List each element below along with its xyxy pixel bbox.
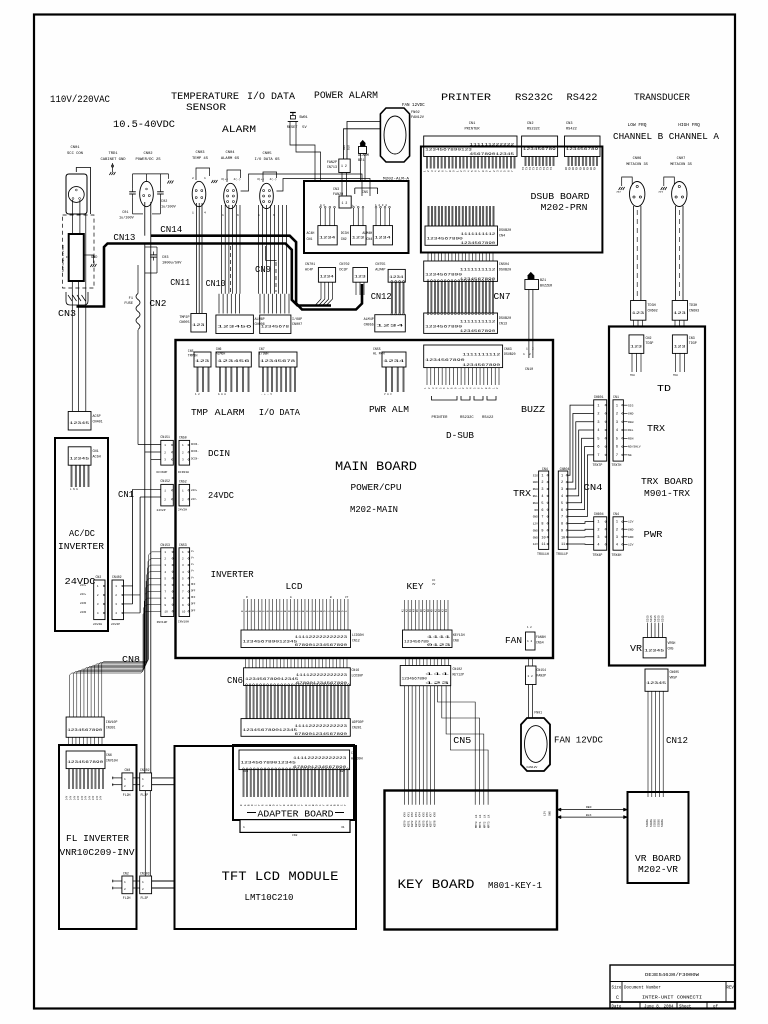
svg-text:TRX4H: TRX4H xyxy=(612,553,622,557)
svg-text:TRX7P: TRX7P xyxy=(593,463,603,467)
svg-text:C01: C01 xyxy=(122,211,128,215)
svg-text:2: 2 xyxy=(124,785,126,788)
svg-text:CN02: CN02 xyxy=(143,152,153,156)
svg-text:0123: 0123 xyxy=(427,644,451,648)
svg-text:1: 1 xyxy=(561,474,563,478)
svg-text:CN701: CN701 xyxy=(305,263,315,267)
svg-text:CN301: CN301 xyxy=(106,726,116,730)
svg-text:CN151: CN151 xyxy=(160,435,170,439)
svg-text:6: 6 xyxy=(561,509,563,513)
svg-text:D-SUB: D-SUB xyxy=(446,431,475,441)
svg-text:1234: 1234 xyxy=(320,275,335,279)
svg-text:C02: C02 xyxy=(161,200,167,204)
svg-text:CN13: CN13 xyxy=(499,323,507,327)
svg-text:ALARM: ALARM xyxy=(222,125,256,136)
svg-text:CN10: CN10 xyxy=(206,279,226,289)
svg-text:5: 5 xyxy=(541,502,543,506)
svg-text:OFF: OFF xyxy=(191,609,196,612)
svg-text:2: 2 xyxy=(616,528,618,532)
svg-text:24V: 24V xyxy=(96,795,99,800)
svg-text:FG: FG xyxy=(66,256,70,259)
svg-text:SENSOR: SENSOR xyxy=(186,103,226,114)
svg-text:ADAPTER BOARD: ADAPTER BOARD xyxy=(258,810,334,820)
svg-text:BUZZER: BUZZER xyxy=(540,285,552,289)
svg-text:AC4H: AC4H xyxy=(307,231,315,235)
svg-text:GND: GND xyxy=(628,536,634,539)
svg-text:CN5: CN5 xyxy=(188,349,194,353)
svg-text:31: 31 xyxy=(341,826,345,829)
svg-text:KEY2: KEY2 xyxy=(411,820,414,827)
svg-text:CN4: CN4 xyxy=(499,235,505,239)
svg-text:2: 2 xyxy=(616,413,618,417)
svg-text:VR5H: VR5H xyxy=(668,641,676,645)
svg-text:1000u/50V: 1000u/50V xyxy=(162,261,182,266)
svg-text:CN602: CN602 xyxy=(648,310,658,314)
svg-text:LCD30P: LCD30P xyxy=(352,674,364,678)
svg-text:LCD30H: LCD30H xyxy=(352,633,364,637)
svg-text:CN12: CN12 xyxy=(371,291,392,302)
svg-text:CN604: CN604 xyxy=(594,512,604,516)
svg-text:BZ1: BZ1 xyxy=(540,279,546,283)
svg-text:TRX BOARD: TRX BOARD xyxy=(641,476,693,487)
svg-text:FAN 12VDC: FAN 12VDC xyxy=(554,735,603,746)
svg-text:12V: 12V xyxy=(628,543,634,546)
svg-text:2: 2 xyxy=(597,528,599,532)
svg-text:9: 9 xyxy=(561,529,563,533)
svg-text:TRX: TRX xyxy=(513,489,532,499)
svg-text:I/O DATA: I/O DATA xyxy=(247,91,295,103)
svg-text:CN303: CN303 xyxy=(140,872,150,876)
svg-text:CN1: CN1 xyxy=(93,450,99,454)
svg-text:LMT10C210: LMT10C210 xyxy=(245,893,294,903)
svg-text:SIG5: SIG5 xyxy=(658,615,661,622)
svg-text:INV10P: INV10P xyxy=(157,621,168,624)
svg-text:CN06: CN06 xyxy=(633,157,642,161)
svg-text:DCIN-: DCIN- xyxy=(191,443,199,446)
svg-text:RGL: RGL xyxy=(533,495,538,498)
svg-text:123: 123 xyxy=(192,324,206,328)
svg-text:DCIN-: DCIN- xyxy=(191,450,199,453)
svg-text:1: 1 xyxy=(597,404,599,408)
svg-text:1 2: 1 2 xyxy=(195,393,200,396)
svg-text:RX: RX xyxy=(590,166,593,170)
svg-text:ALARM: ALARM xyxy=(215,408,245,418)
svg-text:CN1: CN1 xyxy=(351,751,357,755)
svg-text:RX: RX xyxy=(586,166,589,170)
svg-text:CN005: CN005 xyxy=(179,321,189,325)
svg-text:CN601: CN601 xyxy=(594,395,604,399)
svg-text:6: 6 xyxy=(237,214,239,217)
svg-text:CN1: CN1 xyxy=(243,770,248,773)
svg-text:RED: RED xyxy=(343,145,346,150)
svg-text:CN6: CN6 xyxy=(227,676,243,686)
svg-text:POWER/CPU: POWER/CPU xyxy=(351,482,402,493)
svg-text:TMP2P: TMP2P xyxy=(179,316,189,320)
svg-text:111122222222223: 111122222222223 xyxy=(295,725,347,729)
svg-text:SIG5G: SIG5G xyxy=(654,819,657,827)
svg-text:CN4: CN4 xyxy=(613,512,619,516)
svg-text:KEY1: KEY1 xyxy=(407,820,410,827)
svg-text:FAN2P: FAN2P xyxy=(327,161,337,165)
svg-text:CN055: CN055 xyxy=(364,324,374,328)
svg-text:CN3: CN3 xyxy=(333,188,339,192)
svg-text:24V4H: 24V4H xyxy=(93,623,102,626)
svg-text:KEY: KEY xyxy=(407,582,425,592)
svg-text:2: 2 xyxy=(115,594,117,597)
svg-text:1111111112: 1111111112 xyxy=(460,269,495,273)
svg-text:7: 7 xyxy=(541,516,543,520)
svg-text:777: 777 xyxy=(616,191,621,194)
svg-text:CN5: CN5 xyxy=(453,736,471,746)
svg-text:4: 4 xyxy=(561,495,563,499)
svg-text:1: 1 xyxy=(597,521,599,525)
svg-text:24VD: 24VD xyxy=(80,602,87,605)
svg-text:24V2P: 24V2P xyxy=(157,509,166,512)
svg-text:24V: 24V xyxy=(85,795,88,800)
svg-text:M202-PRN: M202-PRN xyxy=(541,202,588,213)
svg-text:DSUB20: DSUB20 xyxy=(504,352,516,356)
svg-text:SIG5G: SIG5G xyxy=(657,819,660,827)
svg-text:SCC CON: SCC CON xyxy=(67,152,83,156)
svg-text:LK: LK xyxy=(483,814,486,818)
svg-text:24V: 24V xyxy=(66,795,69,800)
svg-text:1234: 1234 xyxy=(374,237,391,241)
svg-text:LK: LK xyxy=(475,814,478,818)
svg-text:1234567890: 1234567890 xyxy=(425,273,462,277)
svg-text:24V: 24V xyxy=(73,795,76,800)
svg-text:INV10H: INV10H xyxy=(106,759,118,763)
svg-text:FUSE: FUSE xyxy=(124,302,133,306)
svg-text:CN2: CN2 xyxy=(96,575,102,579)
svg-text:1234: 1234 xyxy=(389,276,404,280)
svg-text:4: 4 xyxy=(541,495,543,499)
svg-text:111: 111 xyxy=(425,673,449,677)
svg-text:11: 11 xyxy=(541,543,545,547)
svg-text:CN2: CN2 xyxy=(646,336,652,340)
svg-text:CN4: CN4 xyxy=(366,237,372,241)
svg-text:8: 8 xyxy=(541,523,543,527)
svg-text:KY4: KY4 xyxy=(419,812,422,817)
svg-text:CN5: CN5 xyxy=(668,647,674,651)
svg-text:1234567890: 1234567890 xyxy=(425,359,464,363)
svg-text:4: 4 xyxy=(616,429,618,433)
svg-text:KY3: KY3 xyxy=(415,812,418,817)
svg-text:MPT3: MPT3 xyxy=(488,821,491,828)
svg-text:123: 123 xyxy=(195,360,210,364)
svg-text:1234567890: 1234567890 xyxy=(67,761,103,765)
svg-text:111111222222: 111111222222 xyxy=(469,144,514,148)
svg-text:1111111112: 1111111112 xyxy=(461,233,496,237)
svg-text:FL2P: FL2P xyxy=(141,793,149,797)
svg-text:DE3E54630/F3000W: DE3E54630/F3000W xyxy=(645,972,699,978)
svg-text:TRANSDUCER: TRANSDUCER xyxy=(634,93,690,104)
svg-text:CN154: CN154 xyxy=(537,668,547,672)
svg-text:CN201: CN201 xyxy=(352,726,362,730)
svg-text:1 2: 1 2 xyxy=(342,201,348,205)
svg-text:5: 5 xyxy=(561,502,563,506)
svg-text:ALM4P: ALM4P xyxy=(364,318,374,322)
svg-text:M801-KEY-1: M801-KEY-1 xyxy=(488,880,542,891)
svg-text:CN04: CN04 xyxy=(225,151,235,155)
svg-text:A A A: A A A xyxy=(218,393,226,396)
svg-text:6: 6 xyxy=(597,446,599,450)
svg-text:TX: TX xyxy=(550,166,553,170)
svg-text:24V: 24V xyxy=(81,795,84,800)
svg-text:24V+: 24V+ xyxy=(191,489,198,492)
svg-text:DC3P: DC3P xyxy=(339,269,347,273)
svg-text:1: 1 xyxy=(142,778,144,781)
svg-text:1: 1 xyxy=(204,177,206,180)
svg-text:CN1: CN1 xyxy=(307,237,313,241)
svg-text:ADP30H: ADP30H xyxy=(351,757,363,761)
svg-text:CN54: CN54 xyxy=(536,641,544,645)
svg-text:June 8, 2004: June 8, 2004 xyxy=(644,1005,674,1009)
svg-text:C03: C03 xyxy=(162,256,168,260)
svg-text:AC5P: AC5P xyxy=(93,415,101,419)
svg-text:KEY6: KEY6 xyxy=(426,820,429,827)
svg-text:1: 1 xyxy=(124,778,126,781)
svg-text:RS422: RS422 xyxy=(567,93,598,104)
svg-text:KEY5: KEY5 xyxy=(422,820,425,827)
svg-text:INV10H: INV10H xyxy=(178,621,189,624)
svg-text:CN504: CN504 xyxy=(499,263,509,267)
svg-text:2: 2 xyxy=(192,177,194,180)
svg-text:123: 123 xyxy=(354,275,367,279)
svg-text:1: 1 xyxy=(616,404,618,408)
svg-text:FAN8H: FAN8H xyxy=(536,635,546,639)
svg-text:1234567890: 1234567890 xyxy=(67,729,102,733)
svg-text:4: 4 xyxy=(597,429,599,433)
svg-text:123456789012345: 123456789012345 xyxy=(241,762,296,766)
svg-text:1 2: 1 2 xyxy=(527,626,532,629)
svg-text:CN8: CN8 xyxy=(122,655,140,665)
svg-text:CHANNEL B CHANNEL A: CHANNEL B CHANNEL A xyxy=(613,132,720,142)
svg-text:12345: 12345 xyxy=(69,422,90,426)
svg-text:VR5P: VR5P xyxy=(670,676,678,680)
svg-text:CN63: CN63 xyxy=(504,347,512,351)
svg-text:TD: TD xyxy=(657,383,671,394)
svg-text:TMP: TMP xyxy=(191,408,208,418)
svg-text:CN2: CN2 xyxy=(527,122,533,126)
svg-text:HIGH FRQ: HIGH FRQ xyxy=(678,122,700,128)
svg-text:12V: 12V xyxy=(544,811,547,816)
svg-text:M202-VR: M202-VR xyxy=(638,864,678,875)
svg-text:123456789: 123456789 xyxy=(404,640,429,644)
svg-text:24V4P: 24V4P xyxy=(111,623,120,626)
svg-text:12345: 12345 xyxy=(69,457,90,461)
svg-text:1 2: 1 2 xyxy=(341,164,347,168)
svg-text:KEY: KEY xyxy=(340,770,345,773)
svg-text:TRX11H: TRX11H xyxy=(537,552,549,556)
svg-text:123: 123 xyxy=(673,312,686,316)
svg-text:24V+: 24V+ xyxy=(80,593,87,596)
svg-text:2: 2 xyxy=(541,481,543,485)
svg-text:9: 9 xyxy=(541,529,543,533)
svg-text:2: 2 xyxy=(529,353,531,356)
svg-text:GND: GND xyxy=(533,481,538,484)
svg-text:1234567890: 1234567890 xyxy=(460,330,495,334)
svg-text:FAN2P: FAN2P xyxy=(537,674,547,678)
svg-text:FAN12V: FAN12V xyxy=(527,766,538,769)
svg-text:RX: RX xyxy=(594,166,597,170)
svg-text:1111111112: 1111111112 xyxy=(462,354,500,358)
svg-text:C: C xyxy=(616,995,619,1001)
svg-text:PWR ALM: PWR ALM xyxy=(369,405,409,415)
svg-text:10: 10 xyxy=(182,610,186,613)
svg-text:4: 4 xyxy=(616,543,618,547)
svg-text:1234567890: 1234567890 xyxy=(462,364,500,368)
svg-text:ALARM: ALARM xyxy=(358,154,369,158)
svg-text:CN05: CN05 xyxy=(262,152,272,156)
svg-text:1: 1 xyxy=(115,585,117,588)
svg-text:BLK: BLK xyxy=(586,814,592,817)
svg-text:123: 123 xyxy=(352,237,366,241)
svg-text:CN007: CN007 xyxy=(292,323,302,327)
svg-text:GND: GND xyxy=(628,528,634,531)
svg-text:METACON 3S: METACON 3S xyxy=(626,163,648,167)
svg-text:MPT0: MPT0 xyxy=(475,821,478,828)
svg-text:CN8: CN8 xyxy=(453,639,459,643)
svg-text:GND: GND xyxy=(533,529,538,532)
svg-text:FN01: FN01 xyxy=(534,711,542,715)
svg-text:3: 3 xyxy=(616,421,618,425)
svg-text:ALM4H: ALM4H xyxy=(362,231,372,235)
svg-text:123: 123 xyxy=(630,345,643,349)
svg-text:4: 4 xyxy=(597,543,599,547)
svg-text:OFF: OFF xyxy=(191,603,196,606)
svg-text:2: 2 xyxy=(142,888,144,891)
svg-text:DCIN3H: DCIN3H xyxy=(178,471,189,474)
svg-text:111122222222223: 111122222222223 xyxy=(293,757,346,761)
svg-text:10.5-40VDC: 10.5-40VDC xyxy=(113,119,175,131)
svg-text:123456789012345: 123456789012345 xyxy=(243,729,298,733)
svg-text:KEY4: KEY4 xyxy=(419,820,422,827)
svg-text:CN605: CN605 xyxy=(670,670,680,674)
svg-text:CN2: CN2 xyxy=(149,299,166,309)
svg-text:2: 2 xyxy=(561,481,563,485)
svg-text:MPT2: MPT2 xyxy=(483,821,486,828)
svg-text:KY0: KY0 xyxy=(404,812,407,817)
svg-text:ALARM 6S: ALARM 6S xyxy=(221,157,240,161)
svg-text:Sheet: Sheet xyxy=(679,1004,692,1009)
svg-text:1111: 1111 xyxy=(427,636,451,640)
svg-text:TMP3H: TMP3H xyxy=(188,354,198,358)
svg-text:2: 2 xyxy=(532,348,534,351)
svg-text:CN2: CN2 xyxy=(341,237,347,241)
svg-text:LCD: LCD xyxy=(286,582,303,592)
svg-text:24V: 24V xyxy=(69,795,72,800)
svg-text:3: 3 xyxy=(561,488,563,492)
svg-text:123456: 123456 xyxy=(217,326,253,330)
svg-text:DSUB BOARD: DSUB BOARD xyxy=(531,191,590,202)
svg-text:M202-MAIN: M202-MAIN xyxy=(350,504,398,515)
svg-text:456789012345: 456789012345 xyxy=(469,153,514,157)
svg-text:RX: RX xyxy=(572,166,575,170)
svg-text:TRX7H: TRX7H xyxy=(612,463,622,467)
svg-text:KY2: KY2 xyxy=(411,812,414,817)
svg-text:11: 11 xyxy=(561,543,565,547)
svg-text:1 2 3 4: 1 2 3 4 xyxy=(375,204,387,207)
svg-text:LK: LK xyxy=(488,814,491,818)
svg-text:777: 777 xyxy=(658,191,663,194)
svg-text:1234: 1234 xyxy=(319,237,336,241)
svg-text:SIG5G: SIG5G xyxy=(646,819,649,827)
svg-text:of: of xyxy=(713,1004,718,1009)
svg-text:1: 1 xyxy=(142,881,144,884)
svg-text:NO/SHLV: NO/SHLV xyxy=(628,445,641,449)
svg-text:POWER ALARM: POWER ALARM xyxy=(314,91,378,102)
svg-text:CN03: CN03 xyxy=(195,151,205,155)
svg-text:2: 2 xyxy=(142,785,144,788)
svg-text:TFT LCD MODULE: TFT LCD MODULE xyxy=(222,869,339,884)
svg-text:6: 6 xyxy=(616,446,618,450)
svg-text:FN02: FN02 xyxy=(411,111,420,115)
svg-text:GND: GND xyxy=(533,536,538,539)
svg-text:KEY3: KEY3 xyxy=(415,820,418,827)
svg-text:24V: 24V xyxy=(77,795,80,800)
svg-text:12345678: 12345678 xyxy=(261,326,290,330)
svg-text:123456789012345: 123456789012345 xyxy=(245,678,298,682)
svg-text:VR BOARD: VR BOARD xyxy=(635,853,681,864)
svg-text:CN2: CN2 xyxy=(292,834,298,837)
svg-text:CN102: CN102 xyxy=(453,667,463,671)
svg-text:111122222222223: 111122222222223 xyxy=(295,636,348,640)
svg-text:CN53: CN53 xyxy=(179,543,187,547)
svg-text:KY6: KY6 xyxy=(426,812,429,817)
svg-text:SIG: SIG xyxy=(533,474,538,477)
svg-text:BUZZ: BUZZ xyxy=(521,404,545,415)
svg-text:KY1: KY1 xyxy=(407,812,410,817)
svg-text:POWER/DC 2S: POWER/DC 2S xyxy=(135,157,161,162)
svg-text:RX: RX xyxy=(579,166,582,170)
svg-text:AC5H: AC5H xyxy=(93,456,101,460)
svg-text:AC/DC: AC/DC xyxy=(69,529,96,539)
svg-text:CN55: CN55 xyxy=(373,347,381,351)
svg-text:KY8: KY8 xyxy=(433,812,436,817)
svg-text:VV: VV xyxy=(432,583,436,586)
svg-text:678901234567890: 678901234567890 xyxy=(295,644,348,648)
svg-text:PRINTER: PRINTER xyxy=(464,128,480,132)
svg-text:6: 6 xyxy=(541,509,543,513)
svg-text:CN13: CN13 xyxy=(113,233,135,243)
svg-text:CN12: CN12 xyxy=(352,639,360,643)
svg-text:CN01: CN01 xyxy=(70,146,80,150)
svg-text:1: 1 xyxy=(222,214,224,217)
svg-text:BLK: BLK xyxy=(347,145,350,150)
svg-text:DCIN-: DCIN- xyxy=(191,457,199,460)
svg-text:RS422: RS422 xyxy=(566,128,577,132)
svg-text:M202-ALM-A: M202-ALM-A xyxy=(383,178,410,182)
svg-text:CN6: CN6 xyxy=(106,753,112,757)
svg-text:INVERTER: INVERTER xyxy=(58,542,105,552)
svg-text:ALM4P: ALM4P xyxy=(375,269,385,273)
svg-text:TD3P: TD3P xyxy=(646,341,654,345)
svg-text:5: 5 xyxy=(597,437,599,441)
svg-text:TRX4P: TRX4P xyxy=(593,553,603,557)
svg-text:110V/220VAC: 110V/220VAC xyxy=(50,94,110,106)
svg-text:123: 123 xyxy=(425,682,449,686)
svg-text:RS232C: RS232C xyxy=(527,128,540,132)
svg-text:111122222222223: 111122222222223 xyxy=(296,674,347,678)
svg-text:LK: LK xyxy=(479,814,482,818)
svg-text:1234: 1234 xyxy=(383,360,405,364)
svg-text:RS232C: RS232C xyxy=(460,416,474,420)
svg-text:CN14: CN14 xyxy=(160,225,182,235)
svg-text:12345: 12345 xyxy=(644,649,665,653)
svg-text:KY7: KY7 xyxy=(430,812,433,817)
svg-text:1: 1 xyxy=(541,474,543,478)
svg-text:ADP30P: ADP30P xyxy=(352,720,364,724)
